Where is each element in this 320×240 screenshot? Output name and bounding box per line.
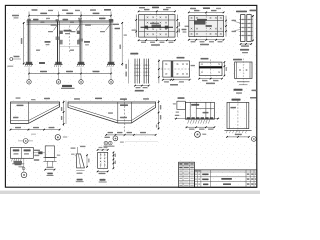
column section detail: title text (233, 59, 242, 61)
base plan detail: left vertical dimension (158, 59, 160, 83)
column stub detail: bottom dimension (45, 169, 54, 171)
elevation: column base A (25, 63, 33, 65)
elevation: right vertical dimension line (121, 22, 123, 66)
haunched beam detail 6: inner labels (120, 104, 128, 106)
column section detail: mid bolt marks (239, 69, 241, 71)
elevation: left slope text (12, 15, 19, 16)
column section detail: base line (237, 81, 250, 83)
beam web detail: right dimension (223, 62, 225, 76)
tapered beam detail 5: right vertical dimension (63, 101, 65, 127)
splice elevation detail: left rotated dim text (125, 64, 127, 69)
tapered beam detail 5: inner bottom flange line (11, 120, 29, 122)
plate detail 1: right dimension line (176, 15, 178, 37)
beam web detail: heavy flange band (199, 66, 222, 68)
gusset plate detail: bottom dimension (76, 170, 84, 172)
haunched beam detail 6: bottom dimension line (106, 134, 155, 136)
haunched beam detail 6: outline (68, 102, 156, 123)
elevation: column base D (107, 63, 115, 65)
base plan detail: bolts (165, 63, 167, 65)
elevation: labels above dimension line (32, 9, 38, 10)
detail 5 bubble (55, 135, 60, 140)
column section detail: bottom labels (234, 89, 243, 91)
haunched beam detail 6: right vertical dimension (158, 100, 160, 130)
tapered beam detail 5: bottom dimension line (11, 129, 60, 131)
sheet border frame (5, 5, 256, 187)
plate detail 2: inner flange lines (193, 16, 195, 37)
detail 1 assembly: left dim marks (175, 115, 180, 116)
elevation: leader circle at far left (10, 58, 13, 61)
base detail box: inner labels (13, 149, 19, 151)
beam web detail: outer rect (199, 62, 222, 76)
base detail box: divider (21, 148, 23, 159)
detail 1 assembly: bottom dimension (187, 126, 215, 128)
elevation: extension lines above beam (28, 12, 30, 22)
plate detail 1: inner flange lines (144, 15, 146, 37)
scan noise overlay (6, 6, 256, 187)
column stub detail: shaft (45, 146, 54, 158)
splice elevation detail: bottom dims (135, 85, 149, 87)
plate detail 1: top dimension line (139, 10, 175, 12)
column stub detail: bottom label (47, 173, 53, 175)
plate detail 2: left weld label (185, 26, 189, 27)
elevation: eave beam (double line) (27, 20, 114, 22)
plate detail 2: center weld blob (195, 21, 206, 25)
title block: revision table text (179, 163, 182, 165)
plate detail 1: bottom dimension line (139, 39, 175, 41)
tapered beam detail 5: end stiffener (27, 102, 29, 123)
title block: drawing number cell (223, 183, 231, 185)
column A (axis 1) (27, 21, 29, 64)
detail 1 assembly: heavy bolt band at bottom (187, 117, 190, 119)
plate detail 2: bolts (191, 17, 193, 19)
column splice: left leaders (235, 22, 241, 24)
splice plate detail: right vertical dimension (112, 152, 114, 168)
detail 7 axis bubble (23, 139, 28, 144)
column splice: bolt rows (239, 19, 252, 21)
haunched beam detail 6: inner bottom flange (70, 106, 118, 121)
column detail 8: inner top label (230, 107, 236, 109)
column detail 8: top title (232, 99, 241, 101)
base plan detail: center lines (161, 68, 192, 70)
gusset plate detail: vertical arrow above (76, 147, 78, 154)
base detail box: right leader (33, 152, 40, 154)
elevation: dashed centerline between axis 2 and 3 (69, 26, 71, 53)
base plan detail: column vertical band (171, 61, 173, 77)
elevation: girt line between axis 2 and 3 (59, 45, 80, 47)
gusset plate detail: tapered plate (76, 154, 84, 168)
detail 1 bubble (bottom-left) (21, 172, 27, 178)
column splice detail: title text (236, 11, 247, 13)
gusset plate detail: left leader (71, 154, 75, 155)
beam web detail: corner bolts (201, 63, 203, 64)
column splice: left channel (241, 15, 245, 42)
detail 6: section label under bubble (104, 141, 108, 145)
plate detail 1: left dimension line (135, 15, 137, 37)
beam web detail: bottom dimension (199, 78, 222, 80)
base detail box: anchor hatching below (12, 158, 13, 161)
haunched beam detail 6: inner top flange (68, 103, 156, 105)
column stub detail: anchor bolts below (46, 161, 48, 166)
axis bubble 4 (109, 80, 113, 84)
detail 1 bubble (mid-right) (195, 132, 201, 138)
plate detail 2: center vertical axis (205, 13, 207, 39)
elevation: knee brace at column C (76, 25, 80, 31)
plate detail 1: bolts (147, 17, 149, 19)
haunched beam detail 6: left vertical dimension (65, 101, 67, 125)
elevation: base label (39, 62, 45, 64)
base plan detail: right leader (191, 65, 196, 66)
plate detail 1: center weld band (141, 26, 174, 28)
plate detail 2: right dimension line (225, 16, 227, 37)
tapered beam detail 5: labels (17, 105, 24, 107)
detail 1 assembly: inner verticals (189, 102, 191, 119)
elevation: extra joint blobs along beam (41, 22, 45, 23)
plate detail 2: top dimension line (189, 11, 224, 13)
column B (axis 2) (57, 21, 59, 64)
elevation: side plate on column B (60, 31, 63, 34)
detail 1 assembly: main column rect (185, 102, 214, 119)
detail 1 assembly: labels inside (191, 104, 199, 106)
detail 5: small note above bubble (31, 134, 36, 135)
plate detail 1: weld leader text (182, 29, 187, 30)
haunched beam detail 6: top labels (74, 98, 80, 99)
column section detail: flange inner lines (236, 62, 238, 79)
elevation: side plate on column C (77, 31, 80, 34)
elevation: view title 2-2 (62, 85, 72, 87)
title block: main block outer (195, 170, 257, 188)
title block: right small cells (247, 174, 250, 175)
column C (axis 3) (79, 21, 81, 64)
title block: revision table (179, 162, 195, 187)
title block: main block rows (195, 171, 257, 173)
haunched beam detail 6: mid stiffeners (117, 102, 119, 123)
detail 8 bubble (251, 137, 256, 142)
title block: project name cell (221, 178, 232, 180)
drawing sheet background (0, 0, 260, 194)
elevation: base plate dark blobs (26, 62, 32, 65)
plate detail 2: bottom dimension line (189, 39, 224, 41)
base plan detail: title (177, 57, 185, 59)
elevation: column base B (55, 63, 63, 65)
splice elevation detail: right I-member (143, 59, 145, 84)
plate detail 1: center vertical axis (156, 13, 158, 40)
detail 1 assembly: centerline with arrows (175, 118, 220, 120)
elevation: column base C (77, 63, 85, 65)
column splice: bottom dimension (241, 43, 252, 45)
beam web detail: center axis (210, 59, 212, 78)
base plan detail: bottom dimension lines (163, 79, 190, 81)
elevation: left vertical dimension line (23, 22, 25, 65)
splice plate detail: bottom label (100, 179, 106, 181)
base detail box: outer (11, 148, 34, 159)
column detail 8: center axis (237, 100, 239, 132)
tapered beam detail 5: outline (11, 102, 60, 123)
plate detail 1: header texts (139, 7, 145, 8)
column stub detail: base plate (43, 157, 56, 159)
title block: role labels column (202, 174, 208, 176)
column splice: right dimension line (252, 15, 254, 42)
axis bubble 1 (27, 80, 31, 84)
splice elevation detail: bolt rows (134, 64, 141, 66)
splice plate detail: bottom dimension (98, 170, 108, 172)
column D (axis 4) (109, 21, 111, 64)
gusset plate detail: bottom label (77, 179, 83, 181)
column detail 8: base line (224, 129, 251, 131)
detail 1 assembly: inner horizontal (196, 107, 214, 109)
plate detail 1: outer plate (139, 15, 175, 37)
plate detail 2: header texts (190, 8, 196, 9)
base detail box: small weld circle (22, 167, 25, 170)
base detail box: lower marks (15, 164, 22, 165)
plate detail 2: outer plate (189, 16, 224, 37)
elevation: bottom dimension line (29, 73, 111, 75)
column section detail: center axis (242, 59, 244, 85)
detail 1 assembly: small side plate (177, 101, 185, 109)
column stub detail: left leader blob (38, 151, 42, 154)
base plan detail: outer plate (163, 61, 190, 77)
splice elevation detail: title (130, 53, 138, 55)
splice plate detail: scale note right of bubble (120, 142, 124, 143)
title block: narrow column marks (195, 174, 197, 175)
title block: small top strip texts (195, 170, 197, 171)
column splice: right channel (247, 15, 251, 42)
splice plate detail: plate with bolt lines (98, 152, 108, 168)
column section detail: web plate (235, 62, 252, 79)
splice plate detail: top dimension (98, 149, 108, 151)
elevation view 2-2: top dimension line (29, 15, 111, 17)
gusset plate detail: right vertical dimension (86, 155, 88, 168)
title block: main block columns (197, 170, 199, 188)
column detail 8: outer rect with double flanges (227, 102, 249, 128)
beam web detail: title (201, 58, 209, 60)
column stub detail: right mark (57, 155, 61, 156)
elevation: mid-height detail blobs between columns (45, 41, 51, 43)
sheet number text top-right corner (250, 10, 257, 12)
axis bubble 2 (56, 80, 60, 84)
detail 6 bubble (113, 136, 118, 141)
faint extension line right of bubble row (125, 141, 158, 143)
axis bubble 3 (79, 80, 83, 84)
elevation: beam-column joint labels (33, 19, 39, 21)
elevation: ground level note (7, 66, 13, 67)
haunched beam detail 6: center axis dashed (124, 99, 126, 132)
elevation: knee brace at column B (54, 25, 58, 31)
column detail 8: bottom dimension (227, 136, 249, 138)
elevation: knee brace at column D (106, 25, 111, 31)
tapered beam detail 5: inner top flange line (11, 103, 60, 105)
detail 1 assembly: anchor hatching below (188, 120, 189, 124)
bottom gray strip (0, 191, 260, 194)
splice elevation detail: left I-member (134, 59, 136, 84)
